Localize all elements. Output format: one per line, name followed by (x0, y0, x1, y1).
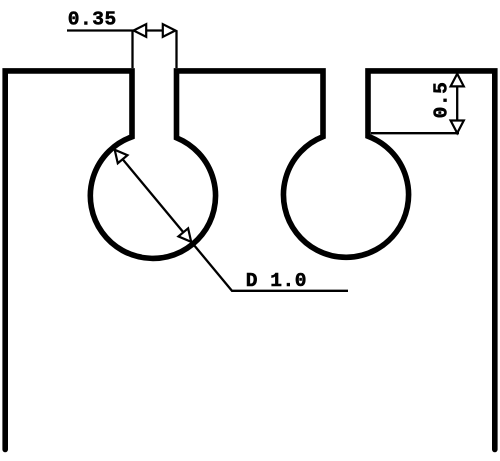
arrowhead down (451, 121, 464, 134)
svg-text:D 1.0: D 1.0 (246, 270, 307, 292)
svg-text:0.35: 0.35 (68, 9, 117, 31)
dim line vertical (456, 72, 458, 133)
extension line left (131, 31, 133, 69)
extension line right (175, 31, 177, 69)
diameter line through circle 1 + leader to label (115, 150, 348, 291)
arrowhead upper-left (110, 146, 128, 164)
svg-text:0.5: 0.5 (430, 82, 452, 119)
arrowhead right (points right) (163, 24, 176, 37)
width dimension 0.35: leader + dim line (67, 29, 176, 31)
arrowhead up (451, 74, 464, 87)
arrowhead lower-right (178, 228, 196, 246)
extension line horizontal (371, 132, 459, 134)
arrowhead left (points left) (134, 24, 147, 37)
